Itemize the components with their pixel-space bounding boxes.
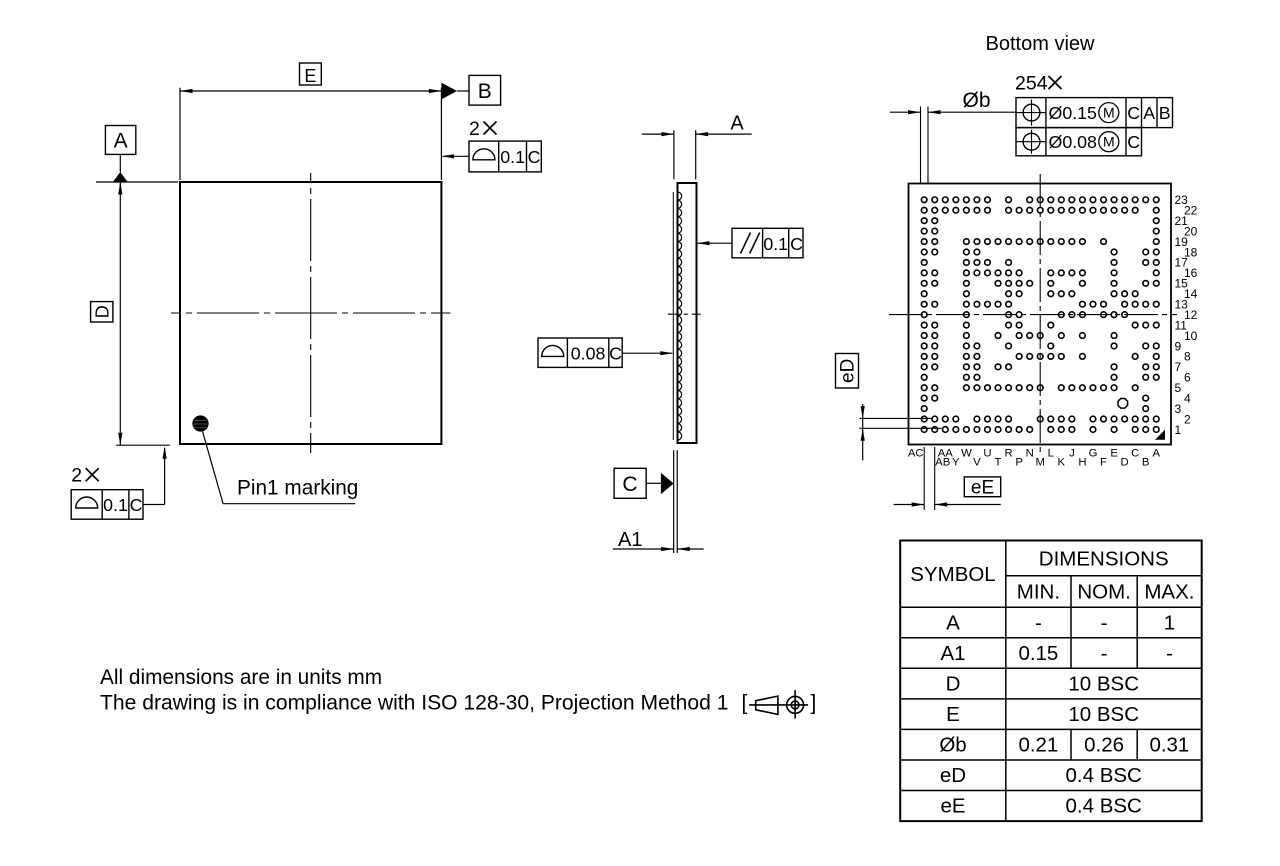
svg-text:K: K (1058, 456, 1066, 468)
svg-text:N: N (1026, 447, 1034, 459)
svg-text:Pin1 marking: Pin1 marking (237, 477, 358, 500)
svg-text:P: P (1015, 456, 1023, 468)
svg-text:D: D (1121, 456, 1129, 468)
svg-text:D: D (92, 305, 112, 318)
svg-text:C: C (528, 147, 541, 167)
svg-text:Bottom view: Bottom view (986, 33, 1095, 55)
svg-text:2: 2 (71, 465, 82, 487)
svg-text:A: A (1143, 103, 1155, 123)
svg-text:A1: A1 (618, 529, 642, 551)
svg-text:0.4 BSC: 0.4 BSC (1066, 795, 1143, 818)
svg-text:J: J (1069, 447, 1075, 459)
svg-text:A: A (730, 113, 744, 135)
svg-text:NOM.: NOM. (1077, 581, 1131, 604)
svg-text:4: 4 (1184, 392, 1191, 406)
svg-text:B: B (1142, 456, 1150, 468)
svg-text:0.4 BSC: 0.4 BSC (1066, 764, 1143, 787)
svg-text:All dimensions are in units mm: All dimensions are in units mm (100, 666, 382, 689)
svg-text:-: - (1166, 642, 1173, 665)
svg-text:0.08: 0.08 (571, 344, 606, 364)
svg-text:3: 3 (1175, 402, 1182, 416)
svg-text:B: B (478, 80, 492, 103)
svg-text:254: 254 (1015, 73, 1048, 95)
svg-text:AB: AB (935, 456, 950, 468)
svg-text:A: A (1153, 447, 1161, 459)
svg-text:A: A (114, 130, 128, 153)
svg-text:0.21: 0.21 (1018, 734, 1058, 757)
svg-text:-: - (1035, 611, 1042, 634)
svg-text:eD: eD (838, 359, 859, 383)
svg-text:5: 5 (1175, 381, 1182, 395)
svg-text:V: V (973, 456, 981, 468)
svg-text:L: L (1048, 447, 1054, 459)
svg-text:A: A (946, 611, 960, 634)
svg-text:M: M (1103, 105, 1115, 121)
svg-text:R: R (1005, 447, 1013, 459)
svg-text:DIMENSIONS: DIMENSIONS (1039, 547, 1169, 570)
svg-text:B: B (1159, 103, 1171, 123)
svg-text:Ø0.08: Ø0.08 (1049, 132, 1098, 152)
svg-text:0.1: 0.1 (103, 495, 128, 515)
svg-text:C: C (609, 344, 622, 364)
svg-text:The drawing is in compliance w: The drawing is in compliance with ISO 12… (100, 691, 728, 714)
svg-text:W: W (961, 447, 972, 459)
svg-text:2: 2 (469, 118, 480, 140)
svg-text:23: 23 (1175, 193, 1189, 207)
svg-text:G: G (1089, 447, 1098, 459)
svg-text:eD: eD (940, 764, 966, 787)
svg-text:0.31: 0.31 (1149, 734, 1189, 757)
svg-text:C: C (1127, 103, 1140, 123)
svg-text:M: M (1103, 134, 1115, 150)
svg-text:E: E (946, 703, 960, 726)
svg-text:C: C (1127, 132, 1140, 152)
svg-text:T: T (995, 456, 1002, 468)
svg-text:Ø0.15: Ø0.15 (1049, 103, 1098, 123)
svg-text:MIN.: MIN. (1017, 581, 1060, 604)
svg-text:A1: A1 (940, 642, 965, 665)
svg-text:Øb: Øb (939, 734, 966, 757)
svg-text:2: 2 (1184, 412, 1191, 426)
svg-text:0.1: 0.1 (763, 234, 788, 254)
svg-text:C: C (1131, 447, 1139, 459)
svg-text:F: F (1100, 456, 1107, 468)
svg-text:E: E (1110, 447, 1118, 459)
svg-text:0.26: 0.26 (1084, 734, 1124, 757)
svg-text:eE: eE (940, 795, 965, 818)
svg-text:H: H (1078, 456, 1086, 468)
svg-text:SYMBOL: SYMBOL (910, 563, 995, 586)
svg-text:-: - (1101, 642, 1108, 665)
svg-text:1: 1 (1175, 423, 1182, 437)
svg-text:Øb: Øb (963, 89, 991, 112)
svg-text:C: C (622, 473, 637, 496)
svg-text:]: ] (811, 691, 817, 714)
svg-text:10 BSC: 10 BSC (1068, 703, 1139, 726)
svg-text:MAX.: MAX. (1144, 581, 1194, 604)
svg-text:[: [ (742, 691, 748, 714)
svg-text:6: 6 (1184, 371, 1191, 385)
svg-text:eE: eE (971, 478, 994, 499)
svg-text:0.15: 0.15 (1018, 642, 1058, 665)
svg-text:7: 7 (1175, 360, 1182, 374)
svg-text:10 BSC: 10 BSC (1068, 672, 1139, 695)
svg-text:D: D (946, 672, 961, 695)
svg-text:1: 1 (1164, 611, 1175, 634)
svg-text:C: C (790, 234, 803, 254)
svg-text:9: 9 (1175, 339, 1182, 353)
svg-text:AC: AC (908, 447, 924, 459)
svg-text:-: - (1101, 611, 1108, 634)
svg-text:U: U (983, 447, 991, 459)
svg-text:M: M (1035, 456, 1044, 468)
svg-text:Y: Y (952, 456, 960, 468)
svg-text:C: C (130, 495, 143, 515)
svg-text:0.1: 0.1 (500, 147, 525, 167)
svg-text:8: 8 (1184, 350, 1191, 364)
svg-text:E: E (304, 66, 316, 86)
